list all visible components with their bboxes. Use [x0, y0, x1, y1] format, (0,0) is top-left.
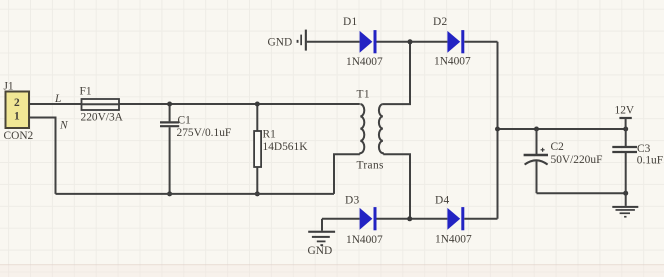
svg-text:12V: 12V — [615, 104, 635, 116]
svg-text:F1: F1 — [80, 86, 92, 98]
diode D1 — [343, 16, 383, 68]
varistor R1 — [254, 104, 308, 194]
transformer T1 — [357, 89, 385, 172]
connector J1 — [4, 81, 34, 143]
svg-text:L: L — [54, 93, 61, 105]
power port 12V — [615, 104, 635, 129]
svg-text:1N4007: 1N4007 — [346, 56, 383, 68]
svg-text:1N4007: 1N4007 — [434, 55, 471, 67]
svg-text:Trans: Trans — [357, 160, 385, 172]
svg-text:0.1uF: 0.1uF — [637, 155, 663, 167]
svg-text:C2: C2 — [551, 141, 565, 153]
svg-text:D4: D4 — [435, 195, 450, 207]
wire bottom rail — [56, 193, 335, 195]
junction C1 bottom — [167, 191, 172, 196]
svg-text:275V/0.1uF: 275V/0.1uF — [177, 127, 232, 139]
wire output (rail to 12V/C3) — [498, 128, 626, 130]
junction secondary top — [408, 39, 413, 44]
svg-text:GND: GND — [268, 37, 293, 49]
svg-text:2: 2 — [14, 97, 20, 109]
junction rail/output — [495, 127, 500, 132]
earth ground (bridge bottom) — [308, 219, 336, 257]
svg-text:1: 1 — [14, 111, 20, 123]
wire ground to D3 — [322, 218, 360, 220]
svg-text:C3: C3 — [637, 143, 651, 155]
svg-text:220V/3A: 220V/3A — [81, 112, 124, 124]
diode D2 — [433, 16, 471, 67]
wire secondary top — [383, 42, 410, 104]
svg-text:GND: GND — [308, 245, 333, 257]
svg-text:T1: T1 — [357, 89, 370, 101]
svg-text:J1: J1 — [4, 81, 14, 93]
wire cap ground rail — [537, 192, 626, 194]
capacitor C3 — [612, 129, 663, 193]
wire right rail — [497, 42, 499, 219]
svg-text:1N4007: 1N4007 — [346, 234, 383, 246]
wire secondary bottom — [383, 154, 410, 219]
svg-text:CON2: CON2 — [4, 130, 34, 142]
earth ground (output) — [612, 193, 638, 217]
wire D1 to D2 — [377, 41, 448, 43]
svg-text:50V/220uF: 50V/220uF — [551, 154, 603, 166]
diode D4 — [435, 195, 472, 246]
junction C3/12V tap — [623, 127, 628, 132]
svg-text:D2: D2 — [433, 16, 448, 28]
svg-text:R1: R1 — [263, 129, 277, 141]
svg-text:D1: D1 — [343, 16, 358, 28]
wire L rail (pin2 to fuse to transformer) — [29, 103, 360, 105]
fuse F1 — [80, 86, 124, 124]
diode D3 — [345, 194, 383, 246]
capacitor C2 — [524, 129, 603, 193]
svg-text:14D561K: 14D561K — [263, 141, 309, 153]
power ground GND (AC input, sideways) — [268, 30, 307, 51]
wire primary-bottom step — [334, 154, 360, 194]
wire N (pin1 down to bottom rail) — [29, 118, 56, 194]
svg-text:N: N — [59, 119, 69, 131]
junction C3 bottom — [623, 191, 628, 196]
wire D3 to D4 — [377, 218, 448, 220]
junction C2 tap — [534, 127, 539, 132]
junction R1 top — [255, 102, 260, 107]
capacitor C1 — [160, 104, 231, 194]
junction R1 bottom — [255, 191, 260, 196]
junction secondary bottom — [407, 216, 412, 221]
svg-text:C1: C1 — [178, 115, 192, 127]
svg-text:D3: D3 — [345, 194, 360, 206]
wire ground to D1 — [307, 41, 360, 43]
junction C1 top — [167, 102, 172, 107]
svg-text:1N4007: 1N4007 — [435, 234, 472, 246]
wire D4 to right rail — [464, 218, 497, 220]
wire D2 to right rail — [464, 41, 497, 43]
